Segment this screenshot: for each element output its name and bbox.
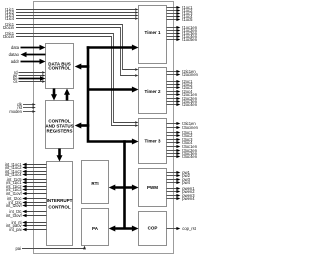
wire t2oc3 xyxy=(167,85,194,90)
wire int_t2ic xyxy=(8,200,46,205)
wire int_t1ic1 xyxy=(6,180,46,185)
svg-text:PWM: PWM xyxy=(147,185,158,190)
svg-text:COP: COP xyxy=(148,226,158,231)
wire pw2 xyxy=(167,173,191,178)
wire int_t1ic3 xyxy=(6,187,46,192)
wire pw3 xyxy=(167,177,191,182)
block Timer 3 xyxy=(139,119,167,164)
wire cop_rst xyxy=(167,226,197,231)
wire pwen3 xyxy=(167,193,196,198)
bus double arrow PA to COP xyxy=(109,226,139,232)
wire int_paov xyxy=(6,223,47,228)
wire int_t2ovf xyxy=(6,203,47,208)
svg-text:data: data xyxy=(11,45,20,50)
wire wr xyxy=(13,73,45,78)
bus trunk V1 and branch to Timer 3 xyxy=(88,46,139,144)
svg-text:CONTROL: CONTROL xyxy=(48,204,70,209)
block CONTROL AND STATUS REGISTERS xyxy=(45,101,73,149)
svg-text:RTI: RTI xyxy=(91,181,98,186)
block COP xyxy=(139,212,167,246)
wire t2oc2 xyxy=(167,82,194,87)
wire clk xyxy=(17,102,36,107)
bus arrow CSR down to INTERRUPT CONTROL xyxy=(57,149,63,162)
wire t1oc4en xyxy=(167,34,198,39)
wire t3ic1 routed down xyxy=(5,31,138,124)
wire int_t1ovf xyxy=(6,191,47,196)
wire t3oc4 xyxy=(167,140,194,145)
wire t1oc3en xyxy=(167,31,198,36)
wire t1ic3 xyxy=(5,13,138,18)
wire pwen4 xyxy=(167,196,196,201)
wire pai xyxy=(15,246,86,252)
block INTERRUPT CONTROL xyxy=(47,162,73,246)
wire t1oc2 xyxy=(167,8,194,13)
wire t3oc4en xyxy=(167,154,198,159)
block DATA BUS CONTROL xyxy=(46,44,74,89)
wire t3ocinen xyxy=(167,125,199,130)
wire t2oc4 xyxy=(167,89,194,94)
svg-text:REGISTERS: REGISTERS xyxy=(46,129,72,134)
wire t2ic1en xyxy=(167,69,197,74)
wire int_t3ovf xyxy=(6,213,47,218)
svg-text:int_t3ovf: int_t3ovf xyxy=(6,213,23,218)
wire t3oc1 xyxy=(167,130,194,135)
wire t2oc1 xyxy=(167,79,194,84)
svg-text:Timer 2: Timer 2 xyxy=(145,89,161,94)
wire t3oc1en xyxy=(167,144,198,149)
wire be xyxy=(13,76,46,81)
wire pwen1 xyxy=(167,186,196,191)
svg-text:PA: PA xyxy=(92,226,99,231)
wire t1oc2en xyxy=(167,28,198,33)
svg-text:pw4: pw4 xyxy=(182,180,190,185)
svg-text:Timer 1: Timer 1 xyxy=(145,30,161,35)
wire moden xyxy=(9,109,35,114)
wire int_t3c xyxy=(9,209,46,214)
block PWM xyxy=(139,169,167,207)
svg-text:t3ocin: t3ocin xyxy=(3,34,15,39)
wire t2oc1en xyxy=(167,92,198,97)
svg-text:cop_rst: cop_rst xyxy=(182,226,196,231)
bus arrow into DATA BUS CONTROL xyxy=(75,64,90,70)
wire int_t1ic2 xyxy=(6,184,46,189)
block Timer 2 xyxy=(139,68,167,114)
svg-text:pwen4: pwen4 xyxy=(182,196,195,201)
block RTI xyxy=(82,161,109,204)
outer chip boundary xyxy=(34,2,174,254)
svg-text:t3oc4en: t3oc4en xyxy=(182,154,197,159)
wire data xyxy=(11,45,46,50)
bus arrow DATA BUS CONTROL down to CSR xyxy=(51,89,57,101)
wire int_rti xyxy=(11,220,46,225)
block Timer 1 xyxy=(139,6,167,64)
svg-text:t1oc5: t1oc5 xyxy=(182,17,193,22)
wire int_t1oc3 xyxy=(5,169,47,174)
wire addr xyxy=(11,59,46,64)
wire cs xyxy=(13,79,45,84)
wire t3oc2en xyxy=(167,148,198,153)
wire int_pai xyxy=(9,227,46,232)
svg-text:cs: cs xyxy=(13,79,17,84)
wire t1ic1 xyxy=(5,7,138,12)
wire t2ocin routed down xyxy=(3,25,139,77)
wire t1ic4 xyxy=(5,16,138,21)
svg-text:t1oc5en: t1oc5en xyxy=(182,37,197,42)
wire t2ic1 routed down xyxy=(5,22,138,71)
bus arrow into CONTROL AND STATUS REGISTERS xyxy=(75,123,90,129)
svg-text:addr: addr xyxy=(11,59,20,64)
wire t2ocinen xyxy=(167,72,199,77)
wire t1oc1en xyxy=(167,25,198,30)
wire t1ic2 xyxy=(5,10,138,15)
wire rd xyxy=(14,70,46,75)
svg-text:t1ic4: t1ic4 xyxy=(5,16,14,21)
wire t1oc3 xyxy=(167,11,194,16)
block PA xyxy=(82,209,109,246)
wire pw1 xyxy=(167,170,191,175)
svg-text:Timer 3: Timer 3 xyxy=(145,138,161,143)
svg-text:CONTROL: CONTROL xyxy=(48,65,70,70)
bus double arrow RTI to PWM xyxy=(109,185,139,191)
wire t3ocin routed down xyxy=(3,34,139,127)
svg-text:datao: datao xyxy=(9,52,20,57)
svg-text:int_t2ovf: int_t2ovf xyxy=(6,203,23,208)
wire int_t1oc1 xyxy=(5,162,47,167)
bus branch to Timer 2 xyxy=(88,87,139,93)
svg-text:t2ocinen: t2ocinen xyxy=(182,72,198,77)
wire t2oc4en xyxy=(167,102,198,107)
wire t3oc3en xyxy=(167,151,198,156)
wire t2oc3en xyxy=(167,99,198,104)
svg-text:t2ocin: t2ocin xyxy=(3,25,15,30)
wire t3ic1en xyxy=(167,121,197,126)
wire int_t1c5 xyxy=(7,177,46,182)
wire pw4 xyxy=(167,180,191,185)
wire t3oc3 xyxy=(167,137,194,142)
wire rst xyxy=(17,105,35,110)
wire int_t1oc4 xyxy=(5,172,47,177)
svg-text:int_pai: int_pai xyxy=(9,227,21,232)
wire t1oc4 xyxy=(167,14,194,19)
svg-text:pai: pai xyxy=(15,246,21,251)
wire datao xyxy=(9,52,46,57)
wire t3oc2 xyxy=(167,133,194,138)
wire int_t2oc xyxy=(7,196,46,201)
bus arrow CSR up to DATA BUS CONTROL xyxy=(64,89,70,101)
wire t1oc5en xyxy=(167,37,198,42)
wire t2oc2en xyxy=(167,96,198,101)
wire t1oc1 xyxy=(167,5,194,10)
wire t1oc5 xyxy=(167,17,194,22)
wire pwen2 xyxy=(167,189,196,194)
bus trunk V2 xyxy=(123,140,126,228)
bus branch to Timer 1 xyxy=(87,45,139,51)
svg-text:t2oc4en: t2oc4en xyxy=(182,102,197,107)
svg-text:INTERRUPT: INTERRUPT xyxy=(47,198,73,203)
wire int_t1oc2 xyxy=(5,165,47,170)
svg-text:moden: moden xyxy=(9,109,22,114)
